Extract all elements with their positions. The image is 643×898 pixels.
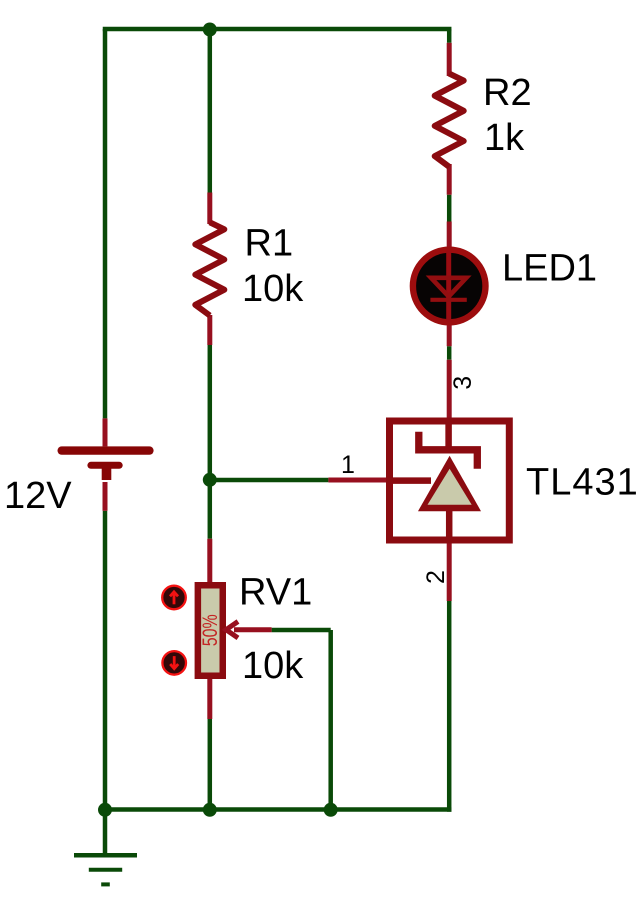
svg-text:R2: R2 bbox=[483, 72, 532, 114]
svg-text:12V: 12V bbox=[4, 475, 72, 517]
svg-text:50%: 50% bbox=[199, 614, 222, 646]
svg-text:RV1: RV1 bbox=[239, 571, 312, 613]
svg-text:1k: 1k bbox=[484, 117, 525, 159]
svg-text:R1: R1 bbox=[245, 223, 294, 265]
svg-text:1: 1 bbox=[341, 451, 355, 479]
svg-text:10k: 10k bbox=[242, 268, 304, 310]
svg-text:2: 2 bbox=[422, 570, 450, 584]
svg-text:3: 3 bbox=[449, 376, 477, 390]
svg-text:TL431: TL431 bbox=[526, 462, 639, 504]
svg-text:LED1: LED1 bbox=[502, 248, 597, 290]
svg-text:10k: 10k bbox=[242, 645, 304, 687]
